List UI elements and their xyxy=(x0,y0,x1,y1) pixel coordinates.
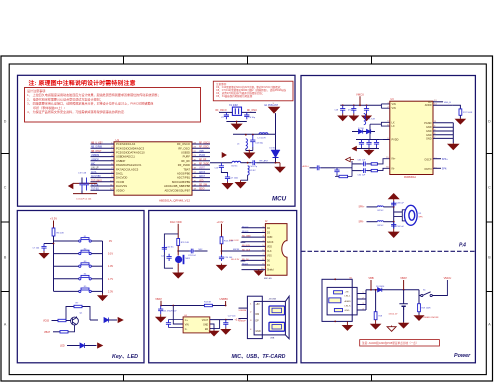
MCU right pin 20 wire xyxy=(192,172,210,174)
wire mic bias to rail xyxy=(222,250,241,252)
svg-text:2: 2 xyxy=(363,297,364,299)
ground R19 xyxy=(415,315,424,321)
svg-text:L6 4.7uH: L6 4.7uH xyxy=(366,119,375,121)
svg-text:C21 NC: C21 NC xyxy=(167,246,175,248)
amp LX bus wire xyxy=(370,122,390,131)
wire rail to switch xyxy=(418,290,420,296)
svg-text:D: D xyxy=(4,120,7,124)
svg-text:C13 33p: C13 33p xyxy=(255,143,264,145)
svg-text:SD-3.3V: SD-3.3V xyxy=(242,245,250,247)
wire C31 to R15 xyxy=(367,163,371,165)
svg-text:NB_OSVT: NB_OSVT xyxy=(91,151,102,153)
capacitor C31 xyxy=(366,140,371,148)
power port arrow RF_RF xyxy=(222,153,226,158)
amplifier U3 body xyxy=(390,101,433,174)
TF card pin D3 wire xyxy=(242,231,266,233)
MCU right pin 24 wire xyxy=(192,189,210,191)
amp ground bus wires xyxy=(433,123,453,143)
svg-text:DAC VDD: DAC VDD xyxy=(170,220,182,224)
wire RF output row xyxy=(210,162,232,164)
amp bulk cap rail wire xyxy=(356,139,379,141)
wire collector to R9 xyxy=(90,319,98,321)
ground AGND hollow xyxy=(387,326,396,332)
svg-text:16: 16 xyxy=(386,167,388,169)
resistor R14 aux xyxy=(339,175,348,177)
junction mic bias xyxy=(221,250,223,252)
wire matching ground rail xyxy=(246,150,253,152)
key switch K1 left wire xyxy=(54,240,79,242)
svg-text:PC5/SDIODAT4/ADC10: PC5/SDIODAT4/ADC10 xyxy=(116,151,145,155)
ground C17 xyxy=(223,182,233,189)
wire L7 to speaker bus xyxy=(383,206,393,208)
capacitor C32 xyxy=(374,140,379,148)
speaker feed wires xyxy=(394,212,403,217)
svg-text:GND: GND xyxy=(345,310,350,312)
battery cell BT1 symbol xyxy=(399,290,407,310)
capacitor C2 xyxy=(84,178,89,191)
svg-text:R19 100R: R19 100R xyxy=(422,308,432,310)
svg-text:LX: LX xyxy=(392,121,395,124)
svg-text:L2 10nH: L2 10nH xyxy=(258,138,266,140)
wire SPK+ to L7 xyxy=(367,206,378,208)
wire amp AVDD to R17 xyxy=(433,104,452,106)
svg-text:PVDD: PVDD xyxy=(392,139,399,142)
svg-text:470uF: 470uF xyxy=(348,109,354,111)
resistor R16 amp xyxy=(371,169,377,171)
TF card pin Shield wire xyxy=(242,269,266,271)
MCU left pin 9 wire xyxy=(91,177,115,179)
svg-text:VDD: VDD xyxy=(267,246,272,248)
resistor R8 xyxy=(58,319,66,321)
MCU right pin 17 wire xyxy=(192,160,210,162)
wire crystal left xyxy=(219,111,232,113)
svg-text:CMD: CMD xyxy=(267,237,273,239)
USB socket upper xyxy=(269,306,285,315)
svg-text:6DIO/LDB/PB9: 6DIO/LDB/PB9 xyxy=(172,180,191,184)
inductor L3 vertical xyxy=(246,139,248,149)
ground C24 xyxy=(217,264,227,271)
wire USB DP xyxy=(239,318,248,320)
wire VMCU stem xyxy=(359,96,361,105)
switch S1 xyxy=(421,292,433,297)
svg-text:VBAT: VBAT xyxy=(44,331,51,334)
svg-text:3: 3 xyxy=(262,236,263,238)
wire mic bias net stub 1 xyxy=(241,241,246,243)
TF card pin VSS wire xyxy=(242,255,266,257)
svg-text:注: 原理图中注释说明设计时需特别注意: 注: 原理图中注释说明设计时需特别注意 xyxy=(29,79,136,87)
amp PVDD stub wire xyxy=(383,139,390,141)
svg-text:6: 6 xyxy=(262,250,263,252)
MCU layout notes text lines xyxy=(216,82,286,98)
wire GND pin to ground xyxy=(210,324,214,330)
key switch K1 xyxy=(79,238,92,242)
resistor R15 xyxy=(371,163,377,165)
key switch K5 right wire xyxy=(91,290,102,292)
svg-text:SD-D3: SD-D3 xyxy=(242,231,249,233)
svg-text:USBDP: USBDP xyxy=(91,159,99,161)
capacitor C26 xyxy=(166,320,171,328)
svg-text:4: 4 xyxy=(363,308,364,310)
warning notes text lines xyxy=(27,88,161,114)
TF card connector body xyxy=(265,224,287,276)
svg-text:USB5V: USB5V xyxy=(220,297,229,301)
svg-text:PURF: PURF xyxy=(183,155,191,159)
svg-text:R17 100K: R17 100K xyxy=(463,112,473,114)
capacitor C27 xyxy=(223,320,228,328)
svg-text:2: 2 xyxy=(387,107,388,109)
mic bias loop wire xyxy=(164,234,178,268)
svg-text:VD33: VD33 xyxy=(43,320,50,323)
capacitor C21 xyxy=(162,245,167,253)
junction matching ground xyxy=(248,150,250,152)
svg-text:AB5301A_QFN48_V12: AB5301A_QFN48_V12 xyxy=(159,198,190,202)
ldo input rail wire xyxy=(161,305,204,307)
ground battery cell xyxy=(399,322,409,328)
svg-text:+5V: +5V xyxy=(256,304,261,306)
svg-text:ADC7: ADC7 xyxy=(199,175,206,178)
TF card pin D2 wire xyxy=(242,227,266,229)
svg-text:L5 NC: L5 NC xyxy=(250,170,256,172)
svg-text:SPK: SPK xyxy=(419,217,424,219)
ground C28 xyxy=(338,114,347,121)
svg-text:DACL: DACL xyxy=(116,172,124,176)
key switch K2 right wire xyxy=(91,253,102,255)
power port arrow VDDIO xyxy=(69,183,74,188)
wire R6 to ladder bus xyxy=(53,236,55,241)
ldo rail right wire xyxy=(212,305,225,307)
svg-text:X1 24M: X1 24M xyxy=(229,104,238,107)
svg-text:VIN: VIN xyxy=(185,324,189,326)
svg-text:C34 1uF: C34 1uF xyxy=(396,226,404,228)
key switch K1 right wire xyxy=(91,240,102,242)
wire R10 to Q1 emitter xyxy=(68,325,75,332)
resistor R12 xyxy=(220,237,223,244)
wire VD33 to R8 xyxy=(52,320,59,322)
svg-text:J3 USB: J3 USB xyxy=(269,298,277,300)
svg-text:LED: LED xyxy=(60,345,65,348)
svg-text:IN-: IN- xyxy=(392,167,396,170)
ground C210 xyxy=(362,114,371,121)
wire battery cell to ground xyxy=(403,307,405,322)
LED LED1 symbol xyxy=(104,318,109,323)
svg-text:RF_OSCO: RF_OSCO xyxy=(177,142,190,146)
svg-text:C23 104: C23 104 xyxy=(188,255,196,257)
svg-text:SPK+: SPK+ xyxy=(442,159,449,161)
resistor R19 xyxy=(418,304,421,312)
ground battery holder xyxy=(343,321,353,330)
svg-text:XLPVB: XLPVB xyxy=(91,185,99,187)
svg-text:+3.3V: +3.3V xyxy=(217,220,224,224)
svg-text:USBDP: USBDP xyxy=(239,320,247,322)
svg-text:GND: GND xyxy=(426,130,432,133)
svg-text:RF_OSCI: RF_OSCI xyxy=(178,146,190,150)
key switch K3 xyxy=(79,263,92,268)
key switch K5 xyxy=(79,288,92,293)
svg-text:IN+: IN+ xyxy=(392,158,397,161)
wire USB5V down xyxy=(225,301,227,306)
svg-text:C27 104: C27 104 xyxy=(228,316,236,318)
battery holder pin 3 wire xyxy=(357,304,366,306)
svg-text:2.3V: 2.3V xyxy=(108,289,114,293)
wire +3.3V down xyxy=(221,224,223,237)
svg-text:ADC6A/DB_NB8/PB8: ADC6A/DB_NB8/PB8 xyxy=(164,184,190,188)
svg-text:R6 10K: R6 10K xyxy=(57,233,65,235)
svg-text:AUX-L: AUX-L xyxy=(303,165,310,168)
key switch K2 xyxy=(79,250,92,255)
svg-text:VBAT: VBAT xyxy=(155,297,162,301)
svg-text:3: 3 xyxy=(363,303,364,305)
svg-text:DM: DM xyxy=(256,314,260,316)
svg-text:USBDM: USBDM xyxy=(239,310,247,312)
battery holder pad 2 xyxy=(329,298,341,303)
svg-text:DACVSS: DACVSS xyxy=(116,184,127,188)
capacitor C32 series xyxy=(362,168,367,173)
LED LED2 symbol xyxy=(80,343,85,348)
MCU left pin 4 wire xyxy=(91,156,115,158)
ground C29 xyxy=(349,114,358,121)
wire LED1 to port xyxy=(109,319,118,321)
wire R16 to IN- xyxy=(377,168,389,170)
power note box xyxy=(360,340,440,346)
svg-text:GND: GND xyxy=(426,134,432,137)
svg-text:ADC6/PB0: ADC6/PB0 xyxy=(177,172,191,176)
battery holder pin 1 wire xyxy=(357,293,366,295)
wire TVS to line xyxy=(275,158,277,163)
P4 and Power region box xyxy=(301,76,475,363)
capacitor C1 xyxy=(79,178,84,191)
wire mic to ground xyxy=(177,263,179,271)
wire amp OUTP xyxy=(433,158,441,160)
resistor R17 xyxy=(459,109,462,115)
MCU left pin 7 wire xyxy=(91,168,115,170)
svg-text:R13 0R: R13 0R xyxy=(204,302,212,304)
MCU right pin 23 wire xyxy=(192,185,210,187)
svg-text:MICIN: MICIN xyxy=(233,249,240,251)
svg-text:U1: U1 xyxy=(116,138,120,142)
svg-text:RF_OSCO: RF_OSCO xyxy=(216,110,227,112)
svg-text:5: 5 xyxy=(387,121,388,123)
MCU right pin 16 wire xyxy=(192,156,210,158)
svg-text:3.6V-4.2V: 3.6V-4.2V xyxy=(389,314,398,316)
svg-text:VBG_B: VBG_B xyxy=(444,102,452,104)
svg-text:SD-3.3V: SD-3.3V xyxy=(231,259,240,261)
svg-text:1: 1 xyxy=(363,292,364,294)
capacitor C33 xyxy=(391,201,396,207)
wire mic output xyxy=(178,250,189,252)
svg-text:RF_OSCI: RF_OSCI xyxy=(247,110,257,112)
svg-text:TVT-LBKG: TVT-LBKG xyxy=(91,180,102,182)
svg-text:1.7V: 1.7V xyxy=(108,277,114,281)
wire amp OUTN xyxy=(433,167,441,169)
svg-text:MIC-3.3V: MIC-3.3V xyxy=(230,240,240,242)
battery holder inner body xyxy=(327,287,357,315)
wire C14 to RF_ANT xyxy=(256,162,275,164)
svg-text:DACK: DACK xyxy=(267,241,274,244)
key switch K5 left wire xyxy=(54,290,79,292)
svg-text:ADC6: ADC6 xyxy=(199,171,206,174)
USB connector body xyxy=(254,301,285,335)
wire mic net stub 3 xyxy=(241,260,246,262)
wire RF rail xyxy=(233,133,276,135)
svg-text:LED: LED xyxy=(199,180,204,182)
capacitor C34 xyxy=(391,222,396,229)
junction VBAT xyxy=(403,289,405,291)
left margin zone ticks xyxy=(1,154,9,292)
svg-text:4、 为保证产品所有文件安全资料，习惯需求掉落导架伊顿事先协: 4、 为保证产品所有文件安全资料，习惯需求掉落导架伊顿事先协商约定. xyxy=(27,109,125,114)
capacitor C17 xyxy=(225,174,230,182)
resistor R7 xyxy=(74,305,82,307)
inductor L7 xyxy=(377,206,383,207)
capacitor C6 xyxy=(244,112,249,119)
MCU left pin 12 wire xyxy=(91,189,115,191)
capacitor C14 series xyxy=(251,160,256,165)
wire L4 to C14 xyxy=(241,162,252,164)
svg-text:+TE: +TE xyxy=(345,292,350,294)
capacitor C5 xyxy=(224,112,229,119)
wire Q1 collector xyxy=(76,317,78,318)
svg-text:SPK+: SPK+ xyxy=(359,207,366,209)
MCU left pin 8 wire xyxy=(91,172,115,174)
svg-text:OSCP: OSCP xyxy=(424,158,431,161)
svg-text:RF_RF: RF_RF xyxy=(181,159,190,163)
ground microphone xyxy=(173,272,183,279)
USB socket lower xyxy=(269,322,285,331)
svg-text:POWER ON/OFF: POWER ON/OFF xyxy=(422,317,440,319)
ground bulk caps xyxy=(365,149,374,155)
svg-text:USB3D: USB3D xyxy=(181,151,190,155)
junction mic top xyxy=(177,250,179,252)
ground key ladder xyxy=(98,294,107,301)
wire L5 to ground xyxy=(241,175,248,180)
wire aux to divider xyxy=(321,167,335,169)
USB pin numbers xyxy=(250,304,252,331)
svg-text:1.0V: 1.0V xyxy=(108,264,114,268)
ground TF card xyxy=(254,269,263,275)
wire switch to VMCU xyxy=(432,280,447,296)
svg-text:VBRT: VBRT xyxy=(199,168,206,170)
MCU region box xyxy=(18,75,296,206)
svg-text:NB_U_KEY: NB_U_KEY xyxy=(91,143,103,145)
wire R11 to mic xyxy=(177,246,179,256)
wire antenna stem xyxy=(275,113,277,134)
capacitor C31 series xyxy=(362,162,367,167)
svg-text:Power: Power xyxy=(454,353,471,359)
capacitor C22 xyxy=(167,254,172,261)
ground matching network xyxy=(244,151,254,159)
TF card pin D0 wire xyxy=(242,259,266,261)
svg-text:LIN_1: LIN_1 xyxy=(345,295,352,297)
resistor R18 stem wire xyxy=(375,290,377,312)
MCU right pin 18 wire xyxy=(192,164,210,166)
inductor L4 xyxy=(232,161,241,162)
svg-text:8: 8 xyxy=(262,259,263,261)
wire R15 to IN+ xyxy=(377,159,389,164)
svg-text:SD_D0: SD_D0 xyxy=(242,259,250,261)
MCU right pin 22 wire xyxy=(192,181,210,183)
capacitor aux shunt xyxy=(334,168,339,174)
svg-text:SD-D2: SD-D2 xyxy=(242,226,249,228)
wire VBAT stem xyxy=(403,280,405,290)
svg-text:USBDM/ADC11: USBDM/ADC11 xyxy=(116,155,135,159)
capacitor C16 xyxy=(219,163,224,171)
MCU left pin 11 wire xyxy=(91,185,115,187)
wire R17 to ground xyxy=(459,115,461,118)
svg-text:NB_O/R88: NB_O/R88 xyxy=(91,147,103,149)
svg-text:RF_3VDD: RF_3VDD xyxy=(178,163,190,167)
svg-text:RF_ANT: RF_ANT xyxy=(260,159,269,162)
MCU right pin 15 wire xyxy=(192,151,210,153)
svg-text:5: 5 xyxy=(262,245,263,247)
wire amp CD xyxy=(433,101,443,103)
svg-text:MCU: MCU xyxy=(272,195,287,202)
svg-text:SPK-: SPK- xyxy=(442,169,448,171)
svg-text:AUXL: AUXL xyxy=(91,171,98,174)
svg-text:P.4: P.4 xyxy=(459,243,466,249)
capacitor C13 xyxy=(250,135,255,147)
wire SPK- to L8 xyxy=(367,221,378,223)
battery holder pad 1 xyxy=(334,291,343,294)
right margin zone ticks xyxy=(486,154,492,292)
svg-text:4: 4 xyxy=(262,240,263,242)
speaker terminal block xyxy=(402,210,405,221)
svg-text:ADC9/COB/SDL/PB7: ADC9/COB/SDL/PB7 xyxy=(164,188,190,192)
svg-text:USBDP: USBDP xyxy=(116,159,125,163)
svg-text:0.1V: 0.1V xyxy=(108,252,114,256)
ground LDO xyxy=(210,330,219,336)
capacitor C25 xyxy=(158,306,163,315)
svg-text:GND: GND xyxy=(203,324,208,326)
svg-text:B1 NC: B1 NC xyxy=(232,166,238,168)
capacitor C23 series xyxy=(190,249,195,254)
svg-text:VBB: VBB xyxy=(368,276,373,280)
MCU left pin 6 wire xyxy=(91,164,115,166)
svg-text:1: 1 xyxy=(387,102,388,104)
svg-text:SDIO: SDIO xyxy=(199,189,205,191)
junction crystal ground xyxy=(236,121,238,123)
svg-text:LX: LX xyxy=(392,125,395,128)
svg-text:VSS: VSS xyxy=(267,256,272,258)
Key LED region box xyxy=(17,211,144,363)
svg-text:C17 100n: C17 100n xyxy=(230,177,239,179)
resistor R19 stem wire xyxy=(418,296,420,304)
svg-text:C14 4.7p: C14 4.7p xyxy=(249,166,258,168)
svg-text:TVT-0G: TVT-0G xyxy=(91,189,99,191)
wire LED2 to port xyxy=(85,345,97,347)
svg-text:10: 10 xyxy=(261,268,263,270)
wire VOUT xyxy=(210,319,233,321)
svg-text:PC3/SDIOCLK4: PC3/SDIOCLK4 xyxy=(116,142,136,146)
antenna E1 symbol xyxy=(269,107,280,113)
wire USB DM xyxy=(239,307,248,309)
svg-text:SD_CLK: SD_CLK xyxy=(242,250,251,252)
svg-text:D7 D8: D7 D8 xyxy=(358,128,365,130)
wire R19 down xyxy=(418,312,420,315)
wire VDDIO bottom rail xyxy=(73,193,97,195)
svg-text:LIN_K: LIN_K xyxy=(345,306,352,308)
microphone MK1 xyxy=(175,255,184,264)
capacitor C26 wires xyxy=(169,320,184,328)
svg-text:VCOM: VCOM xyxy=(116,180,125,184)
ground crystal xyxy=(232,122,242,130)
svg-text:USB: USB xyxy=(199,151,204,153)
junction usb5v xyxy=(225,305,227,307)
svg-text:9: 9 xyxy=(262,264,263,266)
diode D7 xyxy=(359,129,363,133)
junction amp rail xyxy=(342,104,344,106)
wire crystal right xyxy=(242,111,257,113)
wire diode row xyxy=(352,131,375,133)
svg-text:C6 30p: C6 30p xyxy=(249,117,256,119)
